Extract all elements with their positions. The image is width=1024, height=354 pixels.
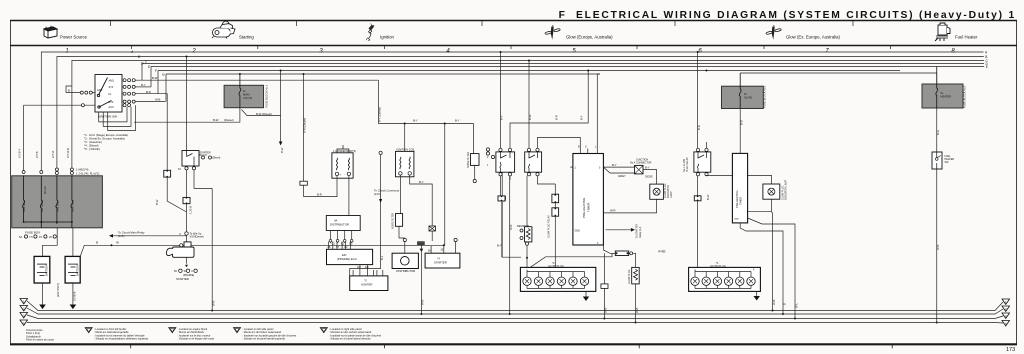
wire row2 to E stub xyxy=(135,86,151,88)
fusible link (starter) xyxy=(183,197,190,203)
svg-text:PRE-HEATING: PRE-HEATING xyxy=(735,190,739,208)
fuse AM1 xyxy=(23,176,73,228)
noise condenser small xyxy=(429,226,435,241)
footnote triangle 4 xyxy=(320,327,381,341)
bottom-right ground triangles xyxy=(1002,299,1010,326)
svg-text:*5 : ( RZ-FE): *5 : ( RZ-FE) xyxy=(84,147,100,151)
bus staircase stubs to ignition switch rows xyxy=(141,64,143,81)
switch terminal labels xyxy=(97,79,114,110)
svg-text:FUSE BOX: FUSE BOX xyxy=(25,231,40,235)
svg-text:0.5 W: 0.5 W xyxy=(51,150,55,158)
svg-text:+B: +B xyxy=(327,246,330,249)
svg-text:NOISE FILTER: NOISE FILTER xyxy=(392,213,395,229)
to circuit main relay arrow xyxy=(113,235,187,237)
svg-text:MAIN: MAIN xyxy=(243,93,250,97)
noise filter (radio) col4 xyxy=(467,152,479,183)
svg-text:+: + xyxy=(340,172,342,176)
svg-text:DISTRIBUTOR: DISTRIBUTOR xyxy=(330,223,349,227)
arrow end B-W xyxy=(279,142,283,146)
bus letter labels at left corners xyxy=(130,50,165,77)
fuel heater icon xyxy=(935,23,950,41)
svg-text:ST: ST xyxy=(336,246,340,249)
starter box (col 4) xyxy=(425,238,460,268)
glow relay E wiring xyxy=(698,52,772,267)
igniter box xyxy=(350,270,388,291)
bottom bus wires xyxy=(27,301,1003,323)
svg-text:FUSE BLOCK No.1: FUSE BLOCK No.1 xyxy=(963,85,967,108)
svg-text:50 mm: 50 mm xyxy=(43,186,47,194)
header section ticks on top line xyxy=(111,21,854,27)
junction connector box xyxy=(630,159,653,179)
resistor on B-R wire xyxy=(300,181,307,185)
glow plug box1 internal wiring xyxy=(527,270,586,297)
svg-text:TIMER: TIMER xyxy=(587,202,591,212)
svg-text:5A: 5A xyxy=(19,235,22,239)
svg-text:STARTER: STARTER xyxy=(176,277,189,281)
svg-text:Relay (2-I): Relay (2-I) xyxy=(639,227,642,238)
svg-text:IGT: IGT xyxy=(357,266,362,269)
wire labels near switch xyxy=(68,76,161,102)
svg-text:B-R: B-R xyxy=(317,192,322,196)
wires from fuse block no.1 xyxy=(134,71,304,182)
top bus wires xyxy=(41,52,984,170)
svg-text:B-Y: B-Y xyxy=(419,180,424,184)
pre-heating timer (col 5) xyxy=(500,51,604,245)
ignition switch contacts left xyxy=(80,91,92,107)
svg-text:IGNITER: IGNITER xyxy=(361,283,372,287)
svg-text:LAMP: LAMP xyxy=(670,191,673,198)
svg-text:Power Source: Power Source xyxy=(60,35,88,40)
footnote triangle 1 xyxy=(85,327,149,341)
ground points note (bottom left) xyxy=(26,328,55,342)
ignition switch box xyxy=(95,75,122,119)
wire AM1 row to fuse block no.1 xyxy=(135,79,378,81)
labels on battery feed wire xyxy=(96,241,119,245)
svg-text:CONNECTOR: CONNECTOR xyxy=(636,162,652,165)
starter relay feed from bus B xyxy=(186,57,188,151)
svg-text:BATTERY: BATTERY xyxy=(45,264,49,276)
glow plug resistor xyxy=(628,267,639,322)
svg-text:B-W: B-W xyxy=(280,147,284,153)
bus letter labels at right ends xyxy=(985,51,989,70)
svg-text:W-B: W-B xyxy=(155,98,161,102)
ground battery 1 xyxy=(39,305,46,310)
svg-text:RELAY: RELAY xyxy=(200,154,208,157)
starter relay xyxy=(178,151,220,172)
ground glow box 2 xyxy=(754,296,760,301)
svg-text:NOISE FILTER: NOISE FILTER xyxy=(467,152,470,168)
resistor (superglow) xyxy=(517,225,532,245)
svg-text:W-B: W-B xyxy=(421,299,425,305)
svg-text:(2-D): (2-D) xyxy=(374,192,380,196)
svg-text:B-L: B-L xyxy=(380,255,384,260)
fuse block no.1 col8 (grey) xyxy=(922,67,967,109)
svg-text:E: E xyxy=(986,65,988,69)
svg-text:F ELECTRICAL WIRING DIAGRAM (: F ELECTRICAL WIRING DIAGRAM (SYSTEM CIRC… xyxy=(559,10,1016,21)
starter terminals xyxy=(179,269,198,272)
battery 2 xyxy=(65,256,80,283)
svg-text:2.0L(*3): 2.0L(*3) xyxy=(243,96,252,100)
switch lever 1 xyxy=(97,78,107,97)
small resistor col4 xyxy=(499,196,505,200)
switch lever 2 xyxy=(98,101,112,109)
ground battery 2 xyxy=(70,305,77,310)
svg-text:No.4: No.4 xyxy=(630,162,636,165)
condenser / coil box (gasoline) xyxy=(332,145,356,178)
svg-text:W: W xyxy=(116,241,119,245)
svg-text:(PRAIRIE) ECU: (PRAIRIE) ECU xyxy=(337,257,357,261)
switch wire stubs and runs xyxy=(24,57,379,171)
svg-text:AM1 40A: AM1 40A xyxy=(22,201,26,212)
svg-text:Starting: Starting xyxy=(239,35,254,40)
glow indicator lamp (col5) xyxy=(650,183,673,199)
tachometer connectors col4 xyxy=(486,148,499,159)
pre-heating timer no.2 (col 6) xyxy=(732,108,747,223)
svg-text:GND: GND xyxy=(734,219,739,221)
noise filter (ignition) xyxy=(392,213,405,238)
svg-text:ST1: ST1 xyxy=(109,85,114,89)
glow plug box2 internal wiring xyxy=(695,270,757,297)
svg-text:1.25 B: 1.25 B xyxy=(189,206,193,214)
column numbers 1-8 xyxy=(65,49,955,55)
svg-text:(Diesel): (Diesel) xyxy=(224,118,234,122)
svg-text:B-Y: B-Y xyxy=(413,119,418,123)
fusible link relay C xyxy=(498,196,505,201)
svg-text:IGF: IGF xyxy=(365,266,370,269)
svg-text:VSV(Diesel): VSV(Diesel) xyxy=(190,235,204,239)
svg-text:B-Y: B-Y xyxy=(455,119,460,123)
glow relay E (col 6) xyxy=(683,148,711,176)
ignition coil wiring xyxy=(400,175,432,226)
svg-text:GLOW PLUG RELAY: GLOW PLUG RELAY xyxy=(548,215,551,238)
svg-text:B-W (Diesel): B-W (Diesel) xyxy=(256,112,272,116)
glow relay C (col 4) xyxy=(496,148,515,176)
svg-text:B-W: B-W xyxy=(152,76,158,80)
footnote triangle 2 xyxy=(169,327,215,341)
footnote triangle 3 xyxy=(234,327,297,341)
svg-text:: Situado en el panel lateral: : Situado en el panel lateral derecho xyxy=(329,337,371,341)
svg-text:(Diesel): (Diesel) xyxy=(212,157,220,160)
footnote list under ignition switch xyxy=(84,133,128,151)
svg-text:C: C xyxy=(191,269,193,273)
svg-text:0.5 B: 0.5 B xyxy=(35,151,39,158)
svg-text:AM2 30A: AM2 30A xyxy=(56,201,60,212)
svg-text:PRE-HEATING: PRE-HEATING xyxy=(582,197,586,218)
svg-text:0.5 W-R: 0.5 W-R xyxy=(66,148,70,158)
svg-text:HEATER: HEATER xyxy=(941,95,951,99)
svg-text:W-B: W-B xyxy=(212,300,216,306)
svg-text:B-Y: B-Y xyxy=(580,115,584,120)
timer right wiring to junction connector xyxy=(603,167,656,253)
svg-text:GLOW: GLOW xyxy=(744,96,752,100)
glow relay D (col 5) xyxy=(525,148,542,176)
svg-text:W-B: W-B xyxy=(509,224,513,230)
wire into switch left xyxy=(66,92,95,94)
svg-text:W-B: W-B xyxy=(936,244,940,250)
svg-text:GND: GND xyxy=(575,230,581,233)
svg-text:: Situado en el bloque del mot: : Situado en el bloque del motor xyxy=(178,337,215,341)
svg-text:B-R: B-R xyxy=(697,125,701,130)
svg-text:1 2.0L(*4), FL’s(*2): 1 2.0L(*4), FL’s(*2) xyxy=(76,172,99,176)
ground glow box 1 xyxy=(583,297,589,302)
svg-text:PLUG RELAY: PLUG RELAY xyxy=(686,157,689,172)
triangle numbers xyxy=(23,299,1007,325)
svg-text:AM1: AM1 xyxy=(109,79,115,83)
battery 1 xyxy=(34,256,50,283)
svg-text:B-R: B-R xyxy=(555,115,559,120)
starter motor icon xyxy=(212,21,235,38)
svg-text:AM2: AM2 xyxy=(97,88,103,92)
svg-text:: Situado en el guardabarro de: : Situado en el guardabarro delantero iz… xyxy=(94,337,149,341)
connector circles above fuse box xyxy=(22,168,73,175)
svg-text:RESISTOR: RESISTOR xyxy=(517,225,529,228)
svg-text:DISTRIBUTOR: DISTRIBUTOR xyxy=(396,269,415,273)
fusible links col5 xyxy=(552,194,559,203)
svg-text:(4-C): (4-C) xyxy=(118,234,124,238)
glow relay D wiring xyxy=(527,61,580,268)
svg-text:FUSE BLOCK No.1: FUSE BLOCK No.1 xyxy=(265,84,269,107)
svg-text:ST2: ST2 xyxy=(109,100,114,104)
svg-text:2: 2 xyxy=(191,49,196,55)
svg-text:INDICATOR LAMP: INDICATOR LAMP xyxy=(785,179,788,200)
svg-text:ACC: ACC xyxy=(109,105,115,109)
svg-text:GLOW PLUG: GLOW PLUG xyxy=(710,264,726,268)
svg-text:W-L: W-L xyxy=(794,302,798,308)
svg-text:GLOW PLUG: GLOW PLUG xyxy=(628,269,631,284)
fusible link relay E xyxy=(694,196,701,201)
fuse link bar xyxy=(24,222,72,228)
svg-text:B-W: B-W xyxy=(155,199,159,205)
distributor drop wire to bus xyxy=(420,252,422,314)
svg-text:BATTERY: BATTERY xyxy=(76,264,80,276)
svg-text:B-G: B-G xyxy=(936,130,940,135)
svg-text:B-O: B-O xyxy=(739,119,743,125)
wire row4 to G stub xyxy=(135,101,165,103)
ignition spark plug icon xyxy=(366,24,374,41)
svg-text:B-W: B-W xyxy=(213,118,219,122)
fuse box (grey) xyxy=(12,176,103,228)
svg-text:G: G xyxy=(162,73,165,77)
svg-text:-: - xyxy=(345,172,346,176)
svg-text:DIODE: DIODE xyxy=(645,176,653,179)
column ticks on band bottom line xyxy=(132,46,891,50)
svg-text:Point et masse du corps: Point et masse du corps xyxy=(26,338,55,342)
svg-text:: Situado en el panel lateral: : Situado en el panel lateral izquierdo xyxy=(242,337,285,341)
distributor IIA box xyxy=(326,216,360,244)
vacuum switch (fuel heater) xyxy=(932,152,954,169)
svg-text:TIMER: TIMER xyxy=(739,197,743,205)
B-Y diesel net (col 3) xyxy=(379,80,474,245)
glow relay C wiring xyxy=(501,52,589,257)
svg-text:B-Y: B-Y xyxy=(497,244,502,248)
ignition switch contacts right xyxy=(123,79,135,107)
header labels xyxy=(60,35,978,40)
svg-text:7.5: 7.5 xyxy=(29,235,33,239)
glow plugs row 2 xyxy=(691,277,755,285)
glow plug box 2 xyxy=(689,261,761,291)
svg-text:B-W: B-W xyxy=(706,194,710,200)
fusible link (left) xyxy=(164,170,171,177)
svg-text:FUSE BLOCK No.1: FUSE BLOCK No.1 xyxy=(762,85,766,108)
fuse block no.1 (grey, col 2) xyxy=(224,74,268,108)
svg-text:173: 173 xyxy=(1006,347,1015,353)
glow box1 sensor link xyxy=(601,253,608,319)
svg-text:B-Y (Diesel): B-Y (Diesel) xyxy=(378,107,382,122)
fuse block no.1 col6 (grey) xyxy=(722,73,937,109)
glow indicator lamp 2 (col 6/7) xyxy=(763,179,788,200)
svg-text:Glow (Europe, Australia): Glow (Europe, Australia) xyxy=(566,35,613,40)
svg-text:W-R: W-R xyxy=(610,209,616,213)
svg-text:0.5 B-Y: 0.5 B-Y xyxy=(18,149,22,158)
svg-text:W-B: W-B xyxy=(772,299,776,305)
distributor box xyxy=(392,238,418,272)
svg-text:IGNITION COIL: IGNITION COIL xyxy=(397,147,416,151)
svg-text:B-Y: B-Y xyxy=(141,83,146,87)
battery icon (power source) xyxy=(44,26,57,38)
ignition coil box xyxy=(396,128,416,177)
wire labels left column xyxy=(18,148,70,158)
svg-text:Glow (Ex. Europe, Australia): Glow (Ex. Europe, Australia) xyxy=(786,35,841,40)
svg-text:Ignition: Ignition xyxy=(380,35,394,40)
svg-text:B-R: B-R xyxy=(146,90,151,94)
svg-text:1 CONDENSER(*3): 1 CONDENSER(*3) xyxy=(333,149,356,153)
svg-text:1: 1 xyxy=(65,49,68,55)
starter relay wiring xyxy=(167,170,212,311)
check connector stub xyxy=(350,155,381,276)
loops under switch xyxy=(99,107,127,122)
starter motor pictorial xyxy=(166,242,194,257)
bottom-left ground triangles xyxy=(20,299,28,326)
svg-text:B: B xyxy=(68,89,70,93)
glow plugs row 1 xyxy=(523,277,589,285)
fuel heater column xyxy=(936,73,938,323)
wire row3 to fusible link xyxy=(135,94,167,171)
svg-text:ALT 100A: ALT 100A xyxy=(40,200,44,212)
svg-text:IG: IG xyxy=(109,92,112,96)
svg-text:4 HΩ: 4 HΩ xyxy=(658,250,666,254)
battery wiring xyxy=(43,228,444,305)
glow plug icon (Europe, Australia) xyxy=(545,25,561,40)
svg-text:MAIN 80A: MAIN 80A xyxy=(71,200,75,212)
svg-text:B-Y: B-Y xyxy=(645,165,650,169)
svg-text:GLOW PLUG: GLOW PLUG xyxy=(548,264,564,268)
svg-text:B-Y: B-Y xyxy=(612,163,617,167)
svg-text:B: B xyxy=(782,303,786,305)
EFI ECU box xyxy=(327,242,373,276)
glow plug box 1 xyxy=(520,261,595,291)
svg-text:STARTER: STARTER xyxy=(434,261,447,265)
svg-text:B: B xyxy=(96,241,98,245)
coil A wiring xyxy=(304,176,349,216)
svg-text:Fuel Heater: Fuel Heater xyxy=(955,35,978,40)
inline connector + arrow xyxy=(418,242,425,253)
starter connector xyxy=(185,232,188,235)
svg-text:(24V ONLY): (24V ONLY) xyxy=(56,283,60,297)
svg-text:GREY: GREY xyxy=(618,174,626,178)
inline fuse (col 5 bottom) xyxy=(615,251,635,267)
svg-text:B-R (Diesel): B-R (Diesel) xyxy=(303,118,307,133)
timer2 wiring fan xyxy=(740,199,795,318)
glow plug icon (Ex. Europe, Australia) xyxy=(766,25,782,40)
